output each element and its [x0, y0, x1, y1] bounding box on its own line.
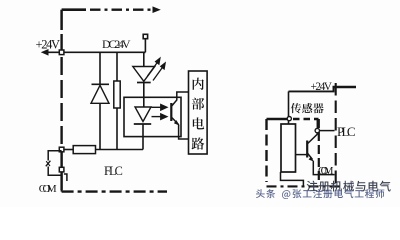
junction node on border — [59, 147, 64, 152]
PLC enclosure left border — [60, 10, 63, 30]
wire: switch branch — [48, 151, 61, 161]
svg-text:FLC: FLC — [104, 164, 123, 178]
svg-text:DC24V: DC24V — [102, 37, 131, 51]
PLC enclosure bottom border — [62, 190, 167, 192]
watermark line1 机械与电气 — [307, 181, 391, 192]
switch contact mark — [46, 161, 51, 167]
sensor dashed box top — [267, 118, 290, 120]
wire: resistor branch top — [116, 52, 118, 81]
collector node — [315, 128, 319, 132]
internal circuit box 内部电路 — [189, 71, 208, 154]
sensor body — [281, 124, 296, 172]
svg-text:+24V: +24V — [311, 81, 333, 93]
bottom dashed border (right) — [267, 185, 342, 187]
resistor R2 (series, horizontal) — [73, 146, 95, 154]
label 内部电路 (internal circuit) — [192, 78, 205, 150]
svg-text:+24V: +24V — [36, 38, 61, 52]
wire: diode branch bottom — [99, 103, 101, 149]
svg-text:COM: COM — [318, 165, 334, 177]
wire: LED to optocoupler — [143, 83, 145, 108]
node: rail crosses border — [59, 50, 64, 55]
arrow to +24V external — [41, 49, 49, 56]
diode D1 (cathode up) — [92, 83, 110, 85]
opto phototransistor — [170, 103, 172, 121]
wire: sensor minus — [281, 172, 304, 186]
watermark line2 头条@张工注册电气工程师 — [256, 189, 384, 199]
wire: base — [296, 154, 307, 156]
transistor Q1 base bar — [306, 141, 308, 158]
opto light arrows — [152, 105, 167, 120]
wire: terminal to rail — [144, 39, 146, 67]
sensor dashed box right — [318, 119, 320, 184]
wire: along border junction to COM corner — [61, 150, 63, 192]
wire: bottom rail right — [96, 149, 144, 151]
PLC enclosure top border (dash-dot with arrow) — [62, 8, 153, 11]
wire: hook at COM terminal — [64, 174, 67, 181]
wire: sensor + supply — [288, 91, 290, 124]
wire: switch to COM terminal — [48, 167, 61, 176]
transistor collector — [307, 133, 317, 145]
optocoupler U1 box — [124, 97, 181, 136]
transistor emitter with arrow — [307, 153, 312, 160]
wire: bottom rail left — [62, 149, 74, 151]
PLC dashed border (right) — [335, 83, 337, 186]
wire: resistor branch bottom — [116, 108, 118, 150]
label 传感器 (sensor) — [291, 103, 324, 113]
LED emission arrows — [148, 58, 166, 80]
sensor dashed box left — [265, 119, 267, 182]
svg-text:COM: COM — [39, 183, 57, 195]
wire: +24V top rail — [45, 51, 146, 53]
input terminal square — [143, 34, 147, 38]
right: +24V rail — [289, 87, 334, 92]
indicator LED (diode down) — [133, 67, 155, 82]
svg-text:PLC: PLC — [337, 124, 356, 139]
resistor R1 (vertical) — [114, 81, 120, 108]
wire: diode branch top — [99, 52, 101, 84]
COM terminal square — [59, 167, 64, 172]
optocoupler LED — [135, 107, 151, 122]
wire: collector to PLC — [320, 130, 335, 132]
node on sensor box top — [287, 117, 291, 121]
wire: emitter to COM — [313, 161, 334, 175]
wire: node up to box corner — [316, 120, 318, 131]
